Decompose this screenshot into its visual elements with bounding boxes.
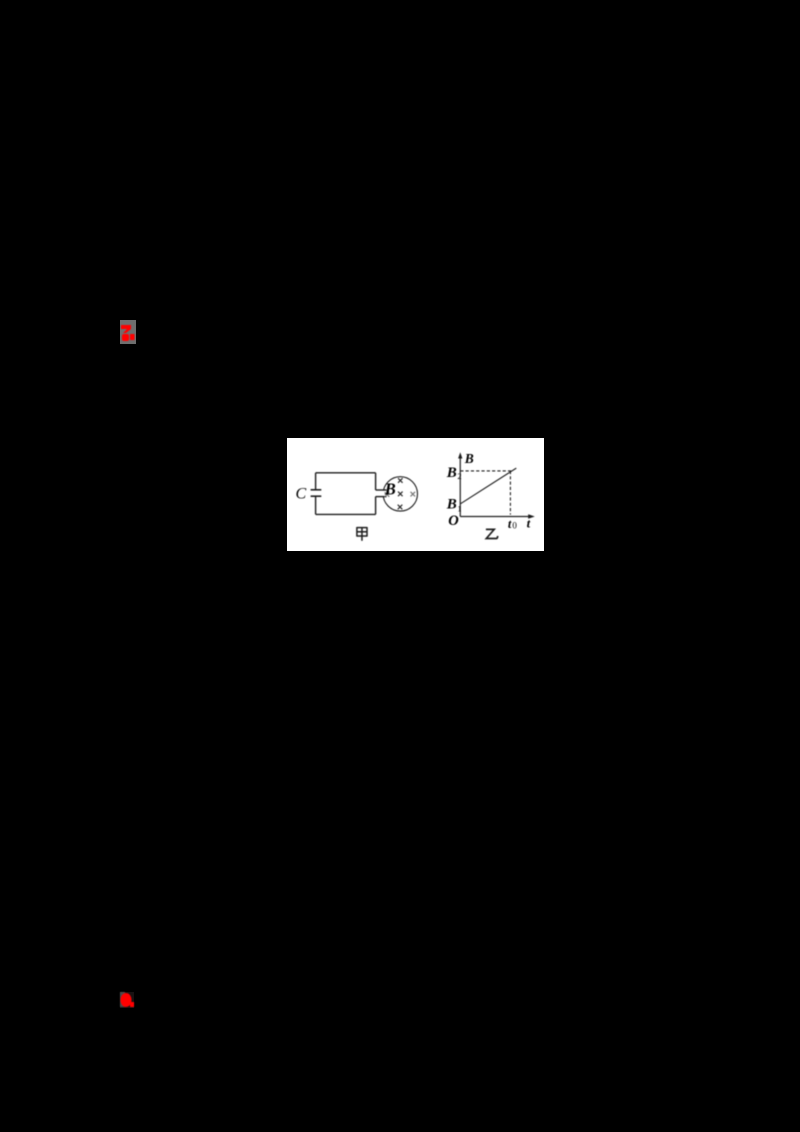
svg-text:B: B [446,465,457,481]
svg-text:B: B [464,451,474,466]
svg-text:B: B [446,497,457,513]
svg-text:0: 0 [512,520,517,530]
svg-text:C: C [296,486,307,503]
svg-text:O: O [448,513,459,529]
svg-text:t: t [527,516,531,531]
svg-text:2: 2 [457,471,461,481]
svg-text:B: B [384,479,396,498]
svg-text:t: t [508,517,512,531]
